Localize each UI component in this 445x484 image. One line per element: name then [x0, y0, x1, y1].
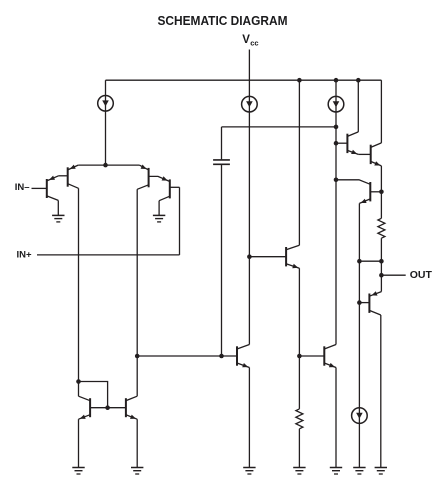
ground G2 [153, 214, 165, 216]
transistor Q11 [323, 346, 325, 365]
node R2 bottom [379, 259, 384, 264]
wire Q4 base to IN+ [179, 187, 181, 255]
wire Q2 collector to mirror [78, 188, 80, 396]
current source I4 [352, 408, 368, 424]
node tail junction [103, 163, 108, 168]
node OUT [379, 273, 384, 278]
wire Q8 emitter to OUT [380, 275, 382, 291]
ground G6 [293, 467, 305, 469]
resistor R2 [378, 218, 385, 238]
ground G8 [353, 467, 365, 469]
svg-text:OUT: OUT [410, 269, 433, 281]
transistor Q2 [67, 167, 69, 186]
node E [334, 141, 339, 146]
wire Q11 emitter [335, 368, 337, 468]
ground G4 [131, 467, 143, 469]
transistor Q13 [125, 398, 127, 417]
wire Q13 emitter [136, 419, 138, 467]
wire second stage input [137, 355, 237, 357]
wire Q9 collector [298, 80, 300, 245]
wire Q6 collector [380, 80, 382, 143]
wire Q9 emitter [298, 268, 300, 356]
node C [297, 354, 302, 359]
wire mirror diode loop [79, 382, 108, 408]
capacitor C1 [221, 127, 223, 159]
node rail-I3 [334, 78, 339, 83]
node F [334, 178, 339, 183]
transistor Q1 [46, 179, 48, 198]
svg-text:SCHEMATIC DIAGRAM: SCHEMATIC DIAGRAM [158, 13, 288, 28]
wire Q6 emitter [380, 166, 382, 218]
ground G1 [52, 214, 64, 216]
current source I1 [98, 96, 114, 112]
wire Q5 collector [357, 80, 359, 132]
wire IN+ line [37, 254, 180, 256]
wire Q10 collector [248, 257, 250, 345]
node D [334, 125, 339, 130]
node Q8 base [357, 300, 362, 305]
transistor Q7 [369, 182, 371, 201]
wire mirror base [90, 407, 126, 409]
transistor Q6 [370, 145, 372, 164]
wire cap top [222, 126, 337, 128]
node mirror collector [76, 379, 81, 384]
wire Q13 collector [136, 356, 138, 396]
wire R1 to ground [298, 429, 300, 468]
transistor Q4 [169, 179, 171, 198]
node mirror base [105, 405, 110, 410]
transistor Q5 [346, 134, 348, 153]
wire top supply rail [106, 79, 382, 81]
current source I2 [242, 96, 258, 112]
wire Q5 emitter to Q6 base [358, 153, 370, 155]
resistor R1 [296, 409, 303, 429]
node rail-Q9 [297, 78, 302, 83]
ground G3 [72, 467, 84, 469]
wire Vcc lead [248, 50, 250, 257]
current source I3 [328, 96, 344, 112]
node cap bottom [219, 354, 224, 359]
svg-text:cc: cc [250, 39, 258, 48]
wire Q1 collector [57, 200, 59, 215]
wire input tail [78, 164, 139, 166]
wire H to R2 bottom [359, 260, 381, 262]
svg-text:IN–: IN– [15, 182, 30, 193]
wire R2 to OUT [380, 238, 382, 275]
transistor Q12 [89, 398, 91, 417]
node rail-Q5 [356, 78, 361, 83]
wire Q3 collector [136, 189, 138, 356]
node B [247, 254, 252, 259]
wire Q12 emitter [78, 419, 80, 467]
wire IN- lead [32, 187, 47, 189]
wire node C to R1 [298, 356, 300, 409]
svg-text:V: V [242, 34, 250, 46]
transistor Q8 [368, 294, 370, 313]
node G [379, 190, 384, 195]
transistor Q10 [236, 346, 238, 365]
ground G5 [243, 467, 255, 469]
ground G7 [330, 467, 342, 469]
node A [135, 354, 140, 359]
svg-text:IN+: IN+ [17, 249, 33, 260]
transistor Q9 [285, 247, 287, 266]
transistor Q3 [148, 168, 150, 187]
wire Q10 emitter [248, 368, 250, 468]
wire Q7 emitter line [358, 203, 360, 467]
wire I1 tail [105, 80, 107, 165]
wire Q8 collector [380, 315, 382, 468]
wire OUT lead [381, 274, 405, 276]
wire Q11 collector / I3 line [335, 80, 337, 344]
wire Q4 collector [158, 201, 160, 216]
ground G9 [375, 467, 387, 469]
node H [357, 259, 362, 264]
